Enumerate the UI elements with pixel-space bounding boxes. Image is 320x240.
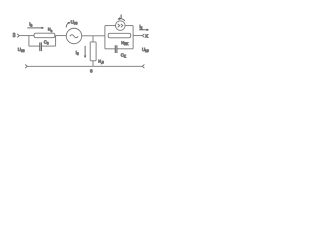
rail right terminal <box>142 65 144 69</box>
svg-text:C3: C3 <box>44 39 49 45</box>
sine wave inside source <box>70 35 78 38</box>
svg-text:Ik: Ik <box>139 24 142 30</box>
current source chevrons <box>118 24 123 27</box>
current arrow I6 <box>84 46 86 58</box>
resistor rEK <box>108 33 131 38</box>
rail left terminal <box>25 65 27 69</box>
wire resistor r56 to rail <box>92 61 94 67</box>
svg-text:Ib: Ib <box>29 22 32 28</box>
wire block to terminal K <box>133 35 142 37</box>
svg-text:N,6: N,6 <box>98 58 104 64</box>
svg-text:CK: CK <box>121 53 127 59</box>
right block left vertical <box>104 26 106 49</box>
wire terminal3 to resistor <box>19 35 34 37</box>
svg-text:K: K <box>145 33 148 38</box>
svg-text:U36: U36 <box>18 47 25 53</box>
capacitor C3 branch left vertical <box>28 36 30 47</box>
svg-text:I6: I6 <box>76 50 79 56</box>
resistor r56 vertical <box>90 42 96 61</box>
wire node to resistor r56 <box>92 36 94 42</box>
right block top wire right <box>125 25 133 27</box>
svg-text:NEK: NEK <box>121 40 129 46</box>
terminal K chevron <box>142 34 144 38</box>
right block top wire left <box>105 25 116 27</box>
svg-text:U06: U06 <box>71 20 78 26</box>
right block right vertical <box>132 26 134 49</box>
wire source to node <box>82 35 105 37</box>
capacitor C3 branch bottom wire left <box>29 45 40 47</box>
voltage source U06 <box>66 28 82 44</box>
current arrow Ik <box>139 29 149 32</box>
capacitor CK plates <box>115 45 117 53</box>
resistor N3 <box>34 33 55 38</box>
capacitor C3 branch bottom wire right <box>42 45 56 47</box>
svg-text:Uk6: Uk6 <box>142 47 149 53</box>
capacitor C3 plates <box>40 42 42 51</box>
current arrow Ib <box>27 27 44 30</box>
capacitor C3 branch right vertical <box>55 36 57 47</box>
arrow above current source <box>117 17 125 20</box>
wire resistor to source <box>55 35 67 37</box>
svg-text:3: 3 <box>13 33 16 39</box>
current source circle <box>116 21 126 31</box>
terminal 3 <box>17 34 19 38</box>
right block bottom wire right <box>117 48 133 50</box>
svg-text:N3: N3 <box>48 28 53 33</box>
svg-text:6: 6 <box>90 69 93 74</box>
voltage arrow U06 <box>66 22 70 28</box>
right block bottom wire left <box>105 48 115 50</box>
bottom rail wire <box>27 65 142 67</box>
svg-text:I: I <box>121 14 122 19</box>
